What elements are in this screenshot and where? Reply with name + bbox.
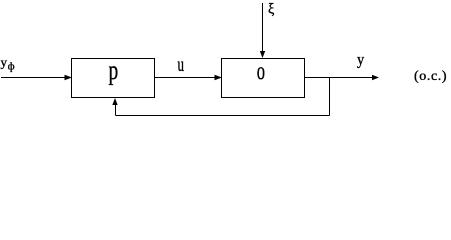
svg-text:о: о (257, 57, 265, 85)
svg-text:у: у (357, 51, 365, 69)
arrowhead: output y (372, 75, 379, 80)
wire: feedback bottom run (116, 115, 330, 117)
label у_ф (reference input) (1, 55, 15, 73)
svg-text:u: u (178, 53, 185, 76)
wire: disturbance ξ into top of O (262, 3, 264, 53)
block O (object/plant) (222, 59, 305, 98)
wire: input у_ф into block P (1, 77, 66, 79)
svg-text:ξ: ξ (268, 1, 275, 17)
arrowhead: ξ into O (down) (260, 51, 265, 58)
svg-text:p: p (109, 56, 119, 86)
wire: feedback rise into bottom of P (115, 103, 117, 116)
svg-text:(о.с.): (о.с.) (414, 69, 447, 84)
wire: u from P to O (155, 77, 215, 79)
svg-text:у: у (1, 55, 8, 70)
arrowhead: input into P (65, 75, 73, 80)
arrowhead: feedback into P (up) (112, 98, 117, 105)
wire: output y from O (305, 77, 373, 79)
wire: feedback drop from output line (329, 78, 331, 116)
block P (regulator) (72, 59, 155, 98)
svg-text:ф: ф (8, 61, 15, 72)
arrowhead: u into O (215, 75, 223, 80)
